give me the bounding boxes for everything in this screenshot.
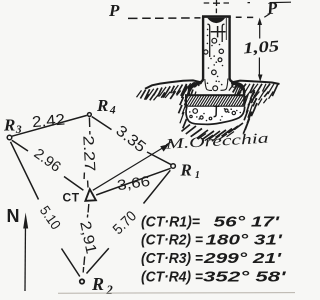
line R3-R2 — [11, 142, 80, 277]
aggregate dots — [198, 29, 239, 88]
svg-text:R1: R1 — [180, 161, 200, 182]
arrow CT to M.Orecchia — [93, 142, 171, 190]
dark soil sliver left of pillar base — [189, 83, 202, 90]
foundation block outline — [186, 107, 245, 125]
foundation stones — [190, 109, 236, 120]
station R4 point — [88, 113, 92, 117]
line R2-R1 — [87, 170, 171, 273]
north arrow — [23, 213, 28, 292]
line R4-R1 — [92, 117, 171, 165]
svg-text:R3: R3 — [3, 116, 22, 137]
dark benchmark cap at pillar top — [207, 18, 225, 23]
svg-text:M.Orecchia: M.Orecchia — [164, 131, 269, 153]
svg-text:3.35: 3.35 — [112, 122, 148, 156]
svg-text:3,66: 3,66 — [116, 174, 151, 194]
svg-text:R2: R2 — [91, 274, 113, 295]
label P (right) with tick and overline — [264, 0, 291, 18]
station R1 point — [171, 164, 176, 169]
line R3-R4 — [12, 115, 87, 136]
pillar inner flare lines — [205, 18, 228, 90]
dimension line 1.05 with arrowheads — [257, 18, 262, 82]
dashed centerline above pillar with cross mark — [204, 0, 250, 13]
svg-text:2.42: 2.42 — [31, 111, 65, 131]
svg-text:2.96: 2.96 — [31, 146, 64, 176]
svg-text:(CT·R3) =299° 21': (CT·R3) =299° 21' — [141, 251, 282, 267]
line R3-CT — [12, 140, 84, 190]
hatched concrete band hatch lines — [186, 95, 244, 106]
hatched concrete band outline — [186, 95, 244, 106]
svg-text:(CT·R1)=56° 17': (CT·R1)=56° 17' — [141, 214, 280, 230]
station R3 point — [7, 135, 12, 140]
soil hatching strokes heavy — [140, 83, 278, 140]
dashed line R4-CT — [84, 118, 90, 188]
right rebar hook — [222, 24, 224, 42]
faint scanner line at bottom edge — [58, 292, 295, 295]
ground surface line left of pillar — [145, 80, 202, 88]
left rebar hook — [207, 24, 209, 57]
svg-text:5.10: 5.10 — [37, 203, 65, 233]
svg-text:P: P — [108, 1, 120, 20]
pipe mark under band — [214, 106, 220, 117]
svg-text:1,05: 1,05 — [243, 38, 280, 57]
soil hatching strokes — [137, 83, 275, 141]
svg-text:CT: CT — [63, 191, 80, 205]
benchmark cross — [211, 26, 226, 37]
ground surface line right of pillar — [231, 81, 280, 84]
svg-text:2,91: 2,91 — [76, 220, 99, 256]
svg-text:(CT·R2) =180° 31': (CT·R2) =180° 31' — [141, 233, 283, 249]
svg-text:(CT·R4) =352° 58': (CT·R4) =352° 58' — [141, 270, 286, 286]
svg-text:2.27: 2.27 — [79, 135, 98, 172]
dashed P-P reference line left segment — [128, 17, 201, 20]
aggregate stones (rings) — [192, 38, 236, 90]
svg-text:5.70: 5.70 — [110, 208, 140, 238]
survey pillar outer walls — [189, 17, 244, 96]
station R2 point — [80, 279, 84, 283]
line CT-R1 — [96, 168, 171, 195]
dashed line CT-R2 — [83, 204, 89, 273]
dark soil sliver right of pillar base — [232, 82, 244, 89]
foundation small dots — [189, 108, 241, 121]
svg-text:N: N — [7, 206, 20, 226]
svg-text:R4: R4 — [96, 96, 116, 117]
dashed P-P reference line right segment — [236, 16, 253, 18]
station CT triangle — [85, 189, 96, 201]
